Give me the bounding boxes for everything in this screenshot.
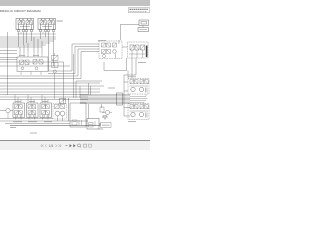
tank T2 [87, 119, 99, 130]
wire pump lines [0, 104, 102, 124]
pilot valve PV2 ports [40, 30, 55, 32]
pilot valve PV2 [38, 19, 56, 30]
wire bank top stubs [15, 95, 48, 104]
wire SM1-SM2 link [122, 46, 128, 48]
control valve CV3 [40, 103, 52, 120]
strainer triangle [103, 116, 107, 120]
main pump P1 [53, 104, 67, 122]
solenoid manifold SM1 [99, 40, 122, 59]
diagram title [0, 9, 41, 13]
control valve CV2 [27, 103, 39, 120]
swivel joint SJ [80, 93, 130, 105]
pilot solenoid block PSB [17, 53, 48, 75]
accumulator box B1 [139, 20, 149, 26]
label box L1 [101, 123, 112, 128]
wire SM1 to travel motor TM1 [104, 58, 128, 79]
pilot filter F1 [52, 53, 59, 99]
gear pump GP [0, 108, 13, 118]
accumulator box B2 [138, 28, 149, 32]
node label A [57, 20, 63, 22]
wire swivel to motors [89, 58, 137, 116]
travel motor TM2 [128, 104, 149, 120]
pilot valve PV1 [16, 19, 34, 30]
wire loop to swivel [76, 81, 104, 98]
label text marks [10, 21, 146, 133]
svg-text:1/4: 1/4 [49, 144, 54, 148]
viewer top band [0, 0, 150, 6]
control valve CV1 [13, 103, 25, 120]
wire center verticals [0, 54, 74, 103]
solenoid manifold SM2 [128, 42, 149, 58]
wire pilot bus left [0, 37, 56, 47]
pilot valve PV1 ports [18, 30, 33, 32]
wire between travel motors [130, 94, 148, 104]
title block TB1 [129, 8, 150, 13]
tank T1 [70, 103, 86, 127]
pilot pump P2 [100, 107, 112, 115]
valve bank inner circles [15, 115, 49, 117]
wire pilot drops PV2 [41, 32, 54, 71]
wire pump column [68, 98, 70, 121]
wire B1 to manifold [121, 24, 144, 40]
wire under pilot ports [17, 32, 56, 34]
wire nested bends [0, 44, 99, 79]
wire left bus to bank [0, 83, 100, 100]
viewer bottom toolbar [0, 140, 150, 150]
solenoid valve SV0 [60, 99, 66, 104]
wire bottom return line [10, 123, 100, 126]
wire pilot verticals to solenoid block [0, 32, 42, 95]
wire pilot drops PV1 [19, 32, 32, 47]
travel motor TM1 [128, 79, 149, 95]
